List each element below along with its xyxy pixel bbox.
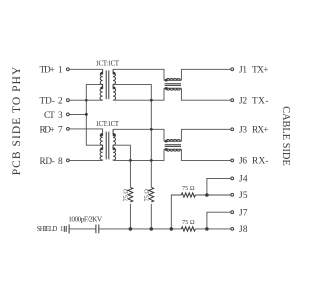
terminal J3 RX+ bbox=[231, 126, 269, 136]
transformer T1 left winding bbox=[100, 69, 103, 100]
svg-text:CABLE SIDE: CABLE SIDE bbox=[280, 106, 291, 166]
svg-text:1CT:1CT: 1CT:1CT bbox=[96, 60, 120, 68]
svg-text:SHIELD: SHIELD bbox=[37, 226, 58, 233]
svg-text:TX+: TX+ bbox=[252, 66, 269, 76]
svg-text:1: 1 bbox=[60, 226, 63, 233]
svg-text:75 Ω: 75 Ω bbox=[182, 185, 195, 192]
pin CT 3 bbox=[44, 111, 69, 121]
svg-text:J5: J5 bbox=[239, 191, 248, 201]
svg-text:RX+: RX+ bbox=[252, 126, 269, 136]
shield pin label bbox=[37, 226, 64, 233]
junction: R2 column crosses TX- wire bbox=[150, 99, 153, 102]
svg-text:8: 8 bbox=[58, 157, 63, 167]
pin TD- 2 bbox=[40, 97, 70, 107]
resistor R3 75ohm body bbox=[181, 193, 195, 197]
ground rail from C1 to resistor R3 bbox=[99, 228, 181, 230]
T2 phase dots bbox=[100, 133, 103, 136]
pin RD+ 7 bbox=[40, 125, 70, 135]
T1 phase dots bbox=[100, 72, 103, 75]
junction: R2 on rail bbox=[150, 227, 154, 231]
junction: R3 lead on rail bbox=[170, 227, 174, 231]
wire choke CM1 to J1 bbox=[181, 69, 230, 80]
junction: R1 column crosses RX- wire bbox=[129, 159, 132, 162]
shield terminal bars bbox=[64, 226, 66, 232]
svg-text:J7: J7 bbox=[239, 209, 248, 219]
choke CM1 phase dots bbox=[165, 79, 168, 82]
wire T1 right bottom to choke CM1 bbox=[113, 88, 164, 100]
wire choke CM1 to J2 bbox=[181, 88, 230, 100]
transformer T1 right winding bbox=[113, 69, 116, 100]
svg-text:75 Ω: 75 Ω bbox=[144, 189, 151, 202]
svg-text:J2: J2 bbox=[239, 97, 247, 107]
svg-text:RD-: RD- bbox=[40, 157, 55, 167]
resistor R3 75ohm (horizontal, J4/J5) lead-in bbox=[171, 195, 181, 229]
wire T2 right bottom to choke CM2 bbox=[113, 149, 164, 160]
svg-text:J1: J1 bbox=[239, 66, 247, 76]
svg-text:TD+: TD+ bbox=[40, 66, 55, 76]
wire choke CM2 to J3 bbox=[181, 129, 230, 141]
svg-text:3: 3 bbox=[58, 111, 63, 121]
wire T1 right center tap down to resistor R2 bbox=[113, 85, 151, 188]
pin RD- 8 bbox=[40, 157, 70, 167]
transformer T2 left winding bbox=[100, 133, 103, 160]
wire branch to J7 bbox=[207, 212, 231, 229]
svg-text:2: 2 bbox=[58, 97, 63, 107]
svg-text:J8: J8 bbox=[239, 225, 248, 235]
transformer T1 core bbox=[106, 70, 109, 99]
terminal J7 bbox=[231, 209, 248, 219]
svg-text:1: 1 bbox=[58, 66, 63, 76]
transformer T2 core bbox=[106, 132, 109, 160]
pin TD+ 1 bbox=[40, 66, 70, 76]
transformer T2 right winding bbox=[113, 129, 116, 160]
svg-text:75 Ω: 75 Ω bbox=[182, 219, 195, 226]
wire RD-8 to T2 left bottom bbox=[70, 159, 103, 161]
choke CM2 core bbox=[165, 145, 181, 147]
wire R3 to J5 bbox=[195, 194, 230, 196]
common-mode choke CM2 upper winding bbox=[164, 140, 181, 142]
wire shield to capacitor C1 bbox=[69, 228, 96, 230]
terminal J5 bbox=[231, 191, 248, 201]
wire R2 to rail bbox=[150, 204, 152, 229]
resistor R1 75ohm (vertical) bbox=[128, 187, 133, 202]
svg-text:J3: J3 bbox=[239, 126, 247, 136]
wire TD+1 to T1 left top bbox=[70, 68, 103, 70]
junction blob: TD- wire crosses bus bbox=[85, 99, 88, 102]
wire R4 to J8 bbox=[195, 228, 230, 230]
terminal J1 TX+ bbox=[231, 66, 269, 76]
junction: CT3 on bus bbox=[85, 113, 88, 116]
wire branch to J4 bbox=[207, 178, 231, 195]
choke CM1 lower winding bbox=[164, 87, 181, 89]
resistor R2 75ohm (vertical) bbox=[149, 187, 154, 202]
terminal J8 bbox=[231, 225, 248, 235]
svg-text:TX-: TX- bbox=[252, 97, 269, 107]
resistor R4 75ohm (horizontal, J7/J8) body bbox=[181, 227, 195, 231]
svg-text:75 Ω: 75 Ω bbox=[123, 189, 130, 202]
wire T2 right top to choke CM2 bbox=[113, 129, 164, 141]
center-tap bus: T1 left CT down to T2 left CT bbox=[86, 85, 102, 146]
terminal J6 RX- bbox=[231, 157, 269, 167]
choke CM1 core bbox=[165, 84, 181, 86]
terminal J2 TX- bbox=[231, 97, 269, 107]
terminal J4 bbox=[231, 175, 248, 185]
choke CM2 phase dots bbox=[165, 140, 168, 143]
svg-text:PCB SIDE TO PHY: PCB SIDE TO PHY bbox=[11, 66, 23, 175]
junction: R2 column crosses RX- wire bbox=[150, 159, 153, 162]
svg-text:TD-: TD- bbox=[40, 97, 55, 107]
wire T2 right center tap down to resistor R1 bbox=[113, 145, 130, 187]
wire R1 to rail bbox=[129, 204, 131, 229]
wire RD+7 to T2 left top bbox=[70, 129, 103, 133]
svg-text:RD+: RD+ bbox=[40, 125, 55, 135]
junction: R1 on rail bbox=[129, 227, 133, 231]
wire TD-2 to T1 left bottom bbox=[70, 99, 103, 101]
svg-text:CT: CT bbox=[44, 111, 55, 121]
junction: J4/J5 node bbox=[205, 193, 209, 197]
junction: R2 column crosses RX+ wire bbox=[150, 128, 153, 131]
choke CM2 lower winding bbox=[164, 148, 181, 150]
common-mode choke CM1 upper winding bbox=[164, 79, 181, 81]
wire choke CM2 to J6 bbox=[181, 149, 230, 160]
junction: J7/J8 node bbox=[205, 227, 209, 231]
wire T1 right top to choke CM1 bbox=[113, 69, 164, 80]
svg-text:RX-: RX- bbox=[252, 157, 269, 167]
capacitor C1 plates bbox=[96, 225, 99, 234]
svg-text:J4: J4 bbox=[239, 175, 248, 185]
svg-text:J6: J6 bbox=[239, 157, 247, 167]
wire CT3 to center-tap bus bbox=[70, 113, 87, 115]
svg-text:1CT:1CT: 1CT:1CT bbox=[96, 120, 120, 128]
svg-text:7: 7 bbox=[58, 125, 63, 135]
svg-text:1000pF/2KV: 1000pF/2KV bbox=[68, 215, 103, 224]
